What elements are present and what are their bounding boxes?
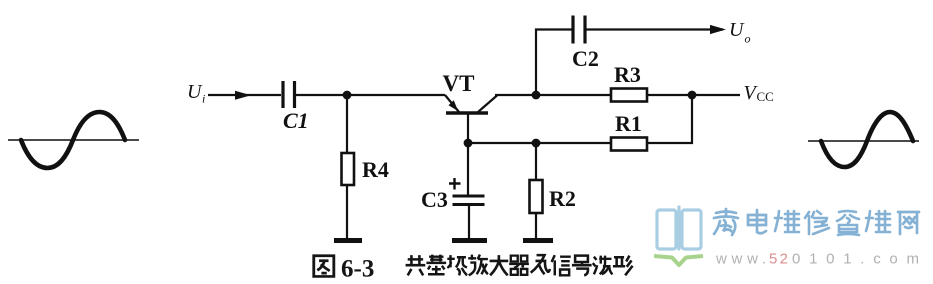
wire node D down to C3 bbox=[467, 143, 469, 196]
resistor R3 bbox=[611, 62, 647, 102]
label U_o bbox=[729, 19, 751, 46]
node D (base junction) bbox=[464, 139, 473, 148]
svg-text:52: 52 bbox=[769, 251, 788, 268]
svg-text:6-3: 6-3 bbox=[341, 256, 374, 283]
node B (collector junction) bbox=[532, 91, 541, 100]
capacitor C3 (electrolytic, + mark) bbox=[421, 178, 485, 238]
wire node C to Vcc label bbox=[692, 94, 740, 96]
label Vcc bbox=[744, 82, 774, 104]
ground (C3) bbox=[452, 238, 487, 243]
watermark logo: open book icon bbox=[654, 207, 703, 265]
node C (Vcc junction) bbox=[688, 91, 697, 100]
wire C1 to node A bbox=[296, 94, 347, 96]
transistor VT bbox=[443, 71, 498, 143]
right output waveform (sine) bbox=[808, 112, 919, 167]
left input waveform (sine) bbox=[8, 112, 139, 168]
svg-text:CC: CC bbox=[757, 89, 774, 104]
label U_i bbox=[187, 81, 205, 106]
svg-text:VT: VT bbox=[443, 71, 475, 96]
wire R3 to node C bbox=[647, 94, 692, 96]
resistor R1 bbox=[611, 111, 647, 151]
svg-text:i: i bbox=[202, 92, 205, 106]
wire R1 right and riser up to node C bbox=[647, 95, 692, 143]
watermark url: www.520101.com bbox=[715, 251, 919, 268]
node E (R2 top junction) bbox=[532, 139, 541, 148]
wire node B up to C2 bbox=[536, 30, 573, 96]
wire node A to transistor emitter bbox=[347, 94, 445, 96]
ground (R2) bbox=[523, 238, 553, 243]
wire node E to R1 bbox=[536, 142, 611, 144]
svg-text:U: U bbox=[187, 81, 203, 103]
wire input with arrow bbox=[208, 91, 281, 100]
svg-text:R4: R4 bbox=[362, 157, 389, 182]
svg-text:C3: C3 bbox=[421, 187, 448, 212]
svg-text:0101.com: 0101.com bbox=[792, 251, 919, 268]
svg-text:C1: C1 bbox=[283, 108, 309, 133]
svg-text:U: U bbox=[729, 19, 745, 41]
wire node E down to R2 bbox=[535, 143, 537, 180]
svg-text:R2: R2 bbox=[549, 186, 576, 211]
svg-text:R3: R3 bbox=[614, 62, 641, 87]
output wire with arrow to Uo bbox=[586, 25, 726, 34]
node A (junction after C1) bbox=[343, 91, 352, 100]
capacitor C2 bbox=[572, 16, 599, 72]
capacitor C1 bbox=[283, 81, 309, 133]
wire node B to R3 bbox=[536, 94, 611, 96]
svg-text:R1: R1 bbox=[615, 111, 642, 136]
wire collector to node B bbox=[495, 94, 536, 96]
wire node D to node E bbox=[468, 142, 536, 144]
svg-text:C2: C2 bbox=[572, 46, 599, 71]
svg-text:o: o bbox=[745, 32, 751, 46]
svg-text:www.: www. bbox=[715, 251, 766, 268]
resistor R2 bbox=[530, 180, 576, 238]
ground (R4) bbox=[334, 238, 362, 243]
watermark text: 家电维修资料网 bbox=[714, 209, 919, 235]
caption: 图 6-3 共基极放大器及信号波形 bbox=[314, 255, 633, 283]
resistor R4 bbox=[342, 95, 389, 238]
